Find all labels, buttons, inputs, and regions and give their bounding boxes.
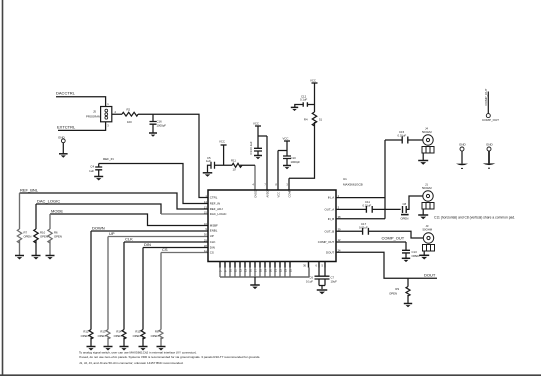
svg-text:OUT_B: OUT_B [325,229,335,233]
svg-text:R8: R8 [155,330,159,334]
svg-text:OPEN: OPEN [40,235,48,239]
svg-text:R4: R4 [304,117,308,121]
svg-text:DAC_LOGIC: DAC_LOGIC [210,212,227,216]
svg-text:OPEN: OPEN [114,334,122,338]
svg-text:GND: GND [459,143,467,147]
svg-text:1000pF: 1000pF [157,124,167,128]
svg-text:OPEN: OPEN [133,334,141,338]
svg-text:1uF: 1uF [89,169,94,173]
svg-text:OUT_A: OUT_A [325,208,335,212]
svg-text:If used, do not use zero-ohm p: If used, do not use zero-ohm panels. Sys… [79,355,260,359]
svg-text:COMP_OUT: COMP_OUT [484,88,488,105]
svg-text:R2: R2 [127,108,131,112]
svg-text:1000pF: 1000pF [291,160,301,164]
svg-text:50OHM: 50OHM [422,130,432,134]
svg-text:CTRL: CTRL [210,196,218,200]
svg-text:REF_BNL: REF_BNL [20,187,39,192]
svg-text:VCC: VCC [310,79,316,83]
svg-text:DACCTRL: DACCTRL [56,91,76,96]
svg-text:1uF: 1uF [206,159,211,163]
svg-text:VCC: VCC [219,140,225,144]
svg-text:CLK: CLK [210,240,216,244]
svg-text:OPEN: OPEN [151,334,159,338]
svg-text:R12: R12 [83,330,89,334]
svg-text:CLK: CLK [125,236,133,241]
svg-text:50OHM: 50OHM [422,186,432,190]
svg-text:COMP_OUT: COMP_OUT [318,240,335,244]
svg-text:EXTCTRL: EXTCTRL [57,124,76,129]
svg-text:OPEN: OPEN [389,291,397,295]
svg-text:DAC_LOGIC: DAC_LOGIC [37,198,60,203]
svg-text:UP: UP [109,231,115,236]
svg-text:CS: CS [162,247,168,252]
svg-text:R15: R15 [135,330,141,334]
svg-text:0.1uF: 0.1uF [306,280,313,284]
svg-text:OPEN: OPEN [412,254,420,258]
svg-text:50OHM: 50OHM [423,228,433,232]
svg-text:COMP_OUT: COMP_OUT [482,118,499,122]
svg-text:100: 100 [127,120,132,124]
svg-text:C8: C8 [403,202,407,206]
svg-text:J5: J5 [93,110,96,114]
svg-text:DVDD: DVDD [253,190,257,197]
svg-text:DOUT: DOUT [326,250,334,254]
svg-text:0.01uF: 0.01uF [398,134,407,138]
svg-text:REF_ADJ: REF_ADJ [210,207,223,211]
svg-text:GND: GND [486,143,494,147]
svg-text:REF_IN: REF_IN [103,157,114,161]
svg-text:PROGRAM: PROGRAM [86,115,101,119]
svg-text:DIN: DIN [210,246,215,250]
svg-text:0.01uF: 0.01uF [359,225,368,229]
svg-text:0.1uF: 0.1uF [300,98,307,102]
svg-text:DOWN: DOWN [92,225,105,230]
svg-text:ENBL: ENBL [210,229,218,233]
svg-text:C14 0.1uF: C14 0.1uF [249,141,253,154]
svg-text:REF_IN: REF_IN [210,202,220,206]
svg-text:COMP_OUT: COMP_OUT [382,236,405,241]
svg-text:OPEN: OPEN [98,334,106,338]
svg-text:U1: U1 [343,177,347,181]
svg-text:MAX5661GCB: MAX5661GCB [343,183,363,187]
svg-text:R11: R11 [231,159,236,163]
svg-text:OPEN: OPEN [54,235,62,239]
svg-text:J1, J2, J3, and J4 are 50 ohm: J1, J2, J3, and J4 are 50 ohm connector;… [79,361,184,365]
svg-text:UP: UP [210,234,214,238]
svg-text:0.01uF: 0.01uF [363,203,372,207]
svg-text:MODE: MODE [51,208,63,213]
svg-text:GND: GND [58,135,66,139]
svg-text:10uF: 10uF [331,280,338,284]
svg-text:10: 10 [233,167,237,171]
svg-text:OPEN: OPEN [81,334,89,338]
svg-text:VCC: VCC [276,192,280,198]
svg-text:IN_A: IN_A [328,196,334,200]
svg-text:DOUT: DOUT [424,272,436,277]
svg-text:51: 51 [319,117,323,121]
svg-text:OPEN: OPEN [401,216,409,220]
svg-text:OPEN: OPEN [24,235,32,239]
svg-text:AVDD: AVDD [265,190,269,197]
svg-text:VCC: VCC [253,122,259,126]
svg-text:MSBF: MSBF [210,224,218,228]
svg-text:R14: R14 [116,330,122,334]
svg-text:R13: R13 [100,330,106,334]
svg-text:CS: CS [210,251,214,255]
svg-text:C11 (horizontal) and C8 (verti: C11 (horizontal) and C8 (vertical) share… [434,215,515,219]
svg-text:VCC: VCC [283,137,289,141]
svg-text:COMP: COMP [287,189,291,197]
svg-text:DIN: DIN [144,242,151,247]
svg-text:IN_B: IN_B [328,217,334,221]
